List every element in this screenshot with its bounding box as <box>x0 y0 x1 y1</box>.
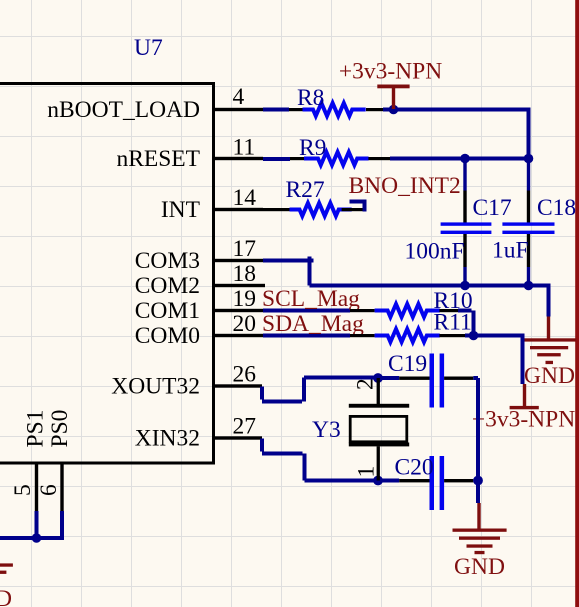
svg-text:+3v3-NPN: +3v3-NPN <box>339 59 442 85</box>
wire C20 junction down <box>476 481 480 504</box>
pin 11 <box>214 157 263 160</box>
wire R11 rail to +3v3 port (bottom) <box>465 336 523 385</box>
svg-text:COM2: COM2 <box>135 273 200 299</box>
wire pin6 down <box>60 511 64 540</box>
svg-text:1uF: 1uF <box>492 238 529 264</box>
ground symbol GND (bottom-left, clipped) <box>0 563 13 573</box>
svg-text:C17: C17 <box>473 195 512 221</box>
svg-text:R9: R9 <box>299 135 326 161</box>
junction R10/R11 <box>469 331 479 341</box>
svg-text:GND: GND <box>524 363 575 389</box>
junction C18 top <box>524 154 534 164</box>
pin 4 <box>214 108 263 111</box>
svg-text:26: 26 <box>233 362 257 388</box>
crystal Y3 <box>312 378 409 481</box>
svg-text:PS1: PS1 <box>23 410 49 448</box>
svg-text:17: 17 <box>233 236 257 262</box>
wire pin27 to crystal bottom <box>262 439 378 481</box>
svg-text:100nF: 100nF <box>405 239 465 265</box>
pin 27 <box>214 436 262 439</box>
svg-text:R27: R27 <box>286 177 325 203</box>
junction C17 top <box>460 154 470 164</box>
pin 5 <box>35 464 38 511</box>
svg-text:C19: C19 <box>388 351 427 377</box>
svg-text:C20: C20 <box>395 455 434 481</box>
ground symbol GND (right) <box>522 317 576 365</box>
svg-text:+3v3-NPN: +3v3-NPN <box>472 407 575 433</box>
svg-text:nRESET: nRESET <box>116 146 200 172</box>
svg-text:Y3: Y3 <box>312 417 341 443</box>
pin 20 <box>214 334 263 337</box>
svg-text:SDA_Mag: SDA_Mag <box>262 311 364 337</box>
svg-text:nBOOT_LOAD: nBOOT_LOAD <box>47 97 200 123</box>
wire stub hook BNO_INT2 <box>350 202 365 212</box>
wire bottom rail <box>0 536 64 540</box>
junction crystal bottom node <box>373 476 383 486</box>
svg-text:27: 27 <box>233 414 257 440</box>
wire net pin11 to R9 <box>263 157 290 161</box>
wire R10 corner down <box>458 311 474 336</box>
svg-text:5: 5 <box>10 484 36 496</box>
IC U7 body outline <box>0 84 214 464</box>
wire pin20 to R11 <box>263 334 350 338</box>
pin 6 <box>60 464 63 511</box>
capacitor C20 <box>382 455 473 511</box>
svg-text:C18: C18 <box>537 195 576 221</box>
svg-text:XIN32: XIN32 <box>135 426 200 452</box>
resistor R9 <box>290 135 390 165</box>
svg-text:PS0: PS0 <box>47 410 73 448</box>
ground symbol GND (bottom) <box>453 503 507 554</box>
svg-text:19: 19 <box>233 286 257 312</box>
svg-text:R11: R11 <box>434 310 472 336</box>
capacitor C18 <box>492 159 576 286</box>
svg-text:18: 18 <box>233 261 257 287</box>
power port +3v3-NPN (bottom) <box>510 384 539 409</box>
svg-text:INT: INT <box>161 197 200 223</box>
wire net pin4 to R8 <box>263 108 289 112</box>
wire pin5 down <box>35 511 39 538</box>
svg-text:COM3: COM3 <box>135 248 200 274</box>
junction on pin4 net <box>389 105 399 115</box>
junction crystal top node <box>373 373 383 383</box>
svg-text:BNO_INT2: BNO_INT2 <box>349 173 461 199</box>
wire pin17 <box>263 257 549 317</box>
junction bottom rail <box>32 533 42 543</box>
resistor R11 <box>350 310 472 343</box>
wire R8 to +3v3 and C18 column <box>383 110 529 159</box>
pin 19 <box>214 309 263 312</box>
svg-text:U7: U7 <box>134 35 163 61</box>
sheet border line <box>575 0 579 607</box>
svg-text:GND: GND <box>0 586 12 607</box>
wire+pin net pin14 to R27 <box>263 208 290 211</box>
svg-text:20: 20 <box>233 311 257 337</box>
junction C17 bottom <box>460 281 470 291</box>
svg-text:R8: R8 <box>297 85 324 111</box>
svg-text:COM1: COM1 <box>135 298 200 324</box>
resistor R10 <box>350 288 473 317</box>
wire pin26 to crystal top <box>262 378 378 402</box>
pin 17 <box>214 259 263 262</box>
svg-text:SCL_Mag: SCL_Mag <box>262 286 360 312</box>
wire R9 to caps top rail <box>390 157 529 161</box>
resistor R27 <box>286 177 366 216</box>
svg-text:6: 6 <box>36 484 62 496</box>
pin 18 <box>214 284 265 287</box>
svg-text:GND: GND <box>454 554 505 580</box>
power port +3v3-NPN (top) <box>377 85 409 110</box>
junction C18 bottom <box>524 281 534 291</box>
capacitor C19 <box>382 351 473 408</box>
pin 14 <box>214 208 263 211</box>
wire C19 right corner down <box>473 378 478 481</box>
junction C20 right <box>473 476 483 486</box>
capacitor C17 <box>405 159 512 286</box>
resistor R8 <box>289 85 384 116</box>
svg-text:11: 11 <box>233 135 256 161</box>
wire pin19 to R10 <box>263 309 350 313</box>
svg-text:2: 2 <box>353 378 379 390</box>
svg-text:1: 1 <box>354 466 380 478</box>
pin 26 <box>214 384 262 387</box>
svg-text:14: 14 <box>233 185 257 211</box>
svg-text:COM0: COM0 <box>135 323 200 349</box>
svg-text:4: 4 <box>233 84 245 110</box>
svg-text:XOUT32: XOUT32 <box>111 374 200 400</box>
